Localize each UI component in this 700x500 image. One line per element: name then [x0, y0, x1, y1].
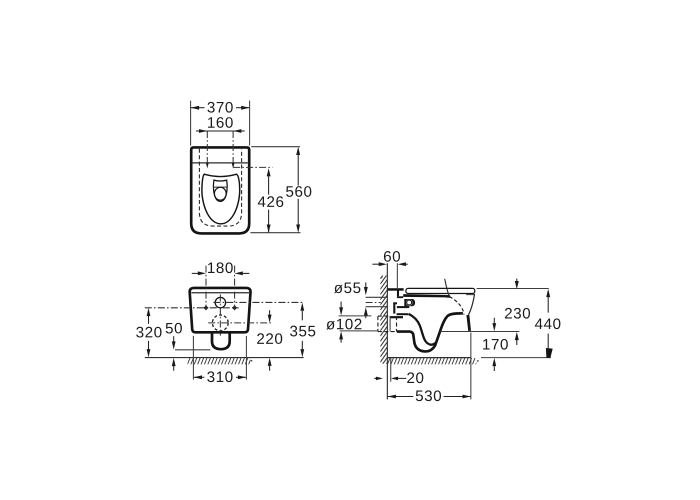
back view: inlet centerline (dash-dot) — [213, 301, 303, 303]
dimension 160 line and arrows — [196, 129, 245, 133]
dimension 370 line and arrows — [191, 106, 250, 110]
dimension o102 text — [326, 321, 335, 330]
dimension 560 line and arrows — [296, 147, 300, 233]
dimension 220 line and arrows — [268, 310, 272, 371]
side view: bowl front face line — [468, 294, 474, 315]
dimension 230 text — [505, 308, 512, 319]
dimension 230 arrows — [515, 279, 519, 345]
dimension o55 text — [334, 285, 343, 294]
side view: flush channel top — [397, 313, 409, 315]
dimension 530 line and arrows — [388, 395, 471, 399]
side view: seat profile — [403, 294, 450, 298]
top view: left bolt centerline — [206, 131, 209, 169]
top view: bowl opening outline — [213, 180, 227, 201]
dimension 170 arrows — [492, 318, 496, 371]
dimension 370 extension lines — [191, 101, 250, 146]
back view: drain circle o102 (hidden) — [212, 315, 228, 331]
dimension 310 extension lines — [193, 336, 246, 380]
side view: seat split line — [445, 279, 450, 297]
back view: pan body outline — [190, 288, 251, 332]
back view: left fixing bolt hole — [203, 305, 208, 310]
dimension 160 text — [208, 117, 215, 127]
side view: drain top edge — [390, 316, 403, 318]
dimension 20 line and arrows — [374, 377, 406, 381]
dimension o55 pipe lines — [366, 297, 388, 306]
dimension o102 pipe lines — [339, 316, 378, 331]
back view: cover top line — [191, 292, 249, 294]
back view: floor line — [145, 357, 304, 359]
dimension o102 arrows — [339, 302, 343, 343]
dimension 530 text — [416, 391, 423, 402]
dimension 60 line and arrows — [372, 262, 407, 266]
dimension 310 line and arrows — [194, 375, 246, 379]
side view: seat front edge line — [466, 294, 474, 296]
dimension 440 text — [535, 319, 543, 329]
side view: floor hatching — [384, 358, 479, 365]
dimension 370 text — [207, 102, 214, 113]
dimension 230 extension line — [477, 288, 549, 290]
dimension 60 text — [384, 251, 391, 262]
side view: inlet elbow — [393, 302, 397, 313]
side view: bracket base line — [397, 306, 409, 308]
dimension 220 text — [257, 333, 264, 344]
side view: pan top rear bar — [388, 288, 404, 291]
back view: bolt centerline (dash-dot) — [145, 307, 239, 309]
dimension 426 text — [258, 196, 266, 206]
top view: inner bowl circle — [214, 187, 226, 200]
top view: hidden rim outline (dashed) — [199, 149, 241, 226]
dimension 180 text — [208, 263, 215, 273]
back view: right fixing bolt hole — [232, 305, 237, 310]
dimension o55 arrows — [364, 282, 368, 318]
dimension 440 line and arrows — [546, 289, 553, 358]
side view: bowl interior profile — [409, 314, 437, 345]
dimension 320 line and arrows — [147, 308, 151, 357]
dimension 320 text — [136, 327, 143, 338]
dimension 50 extension line — [175, 349, 210, 351]
top view: water line chord — [214, 186, 228, 188]
top view: pan body outline — [191, 147, 249, 233]
dimension 60 extension line — [396, 263, 398, 288]
side view: hidden rim curve (dashed) — [449, 297, 464, 315]
back view: floor hatching — [184, 358, 252, 365]
back view: drain centerline (dash-dot) — [208, 322, 271, 324]
dimension 530 extension line (front) — [470, 333, 472, 400]
top view: seat reference centerline (dash-dot) — [233, 166, 272, 168]
back view: flush bend (U pipe) — [212, 331, 230, 349]
top view: seat hinge line — [191, 162, 249, 164]
dimension 50 text — [166, 323, 173, 334]
dimension 426 line and arrows — [267, 168, 271, 233]
dimension 310 text — [207, 371, 214, 382]
dimension 170 text — [483, 339, 490, 349]
side view: inlet socket step — [397, 291, 403, 298]
back view: vertical centerline — [219, 295, 221, 336]
dimension 170 extension line (rim bottom) — [441, 331, 520, 333]
side view: floor line — [387, 357, 551, 359]
dimension 180 line and arrows — [192, 271, 250, 275]
top view: seat cover outer edge — [202, 174, 240, 224]
dimension 20 extension line — [390, 358, 392, 382]
side view: bowl outer profile — [397, 313, 463, 351]
dimension 50 line and arrows — [172, 336, 176, 371]
side view: front rim wedge — [466, 315, 471, 331]
dimension 560 extension lines — [250, 147, 300, 233]
side view: drain pipe hidden rectangle — [378, 316, 397, 332]
dimension 20 text — [407, 372, 414, 383]
side view: seat hinge bracket — [404, 299, 415, 306]
dimension 560 text — [286, 186, 293, 197]
back view: water inlet circle o55 — [215, 297, 225, 307]
side view: wall face line — [386, 263, 388, 399]
dimension 355 text — [290, 326, 297, 337]
dimension 180 extension centerlines — [206, 266, 235, 310]
side view: cover (lid) — [406, 288, 475, 293]
side view: wall hatching — [380, 269, 387, 383]
dimension 355 line and arrows — [300, 303, 304, 358]
side view: pan back vertical line — [389, 317, 391, 332]
top view: right bolt centerline — [232, 131, 235, 169]
